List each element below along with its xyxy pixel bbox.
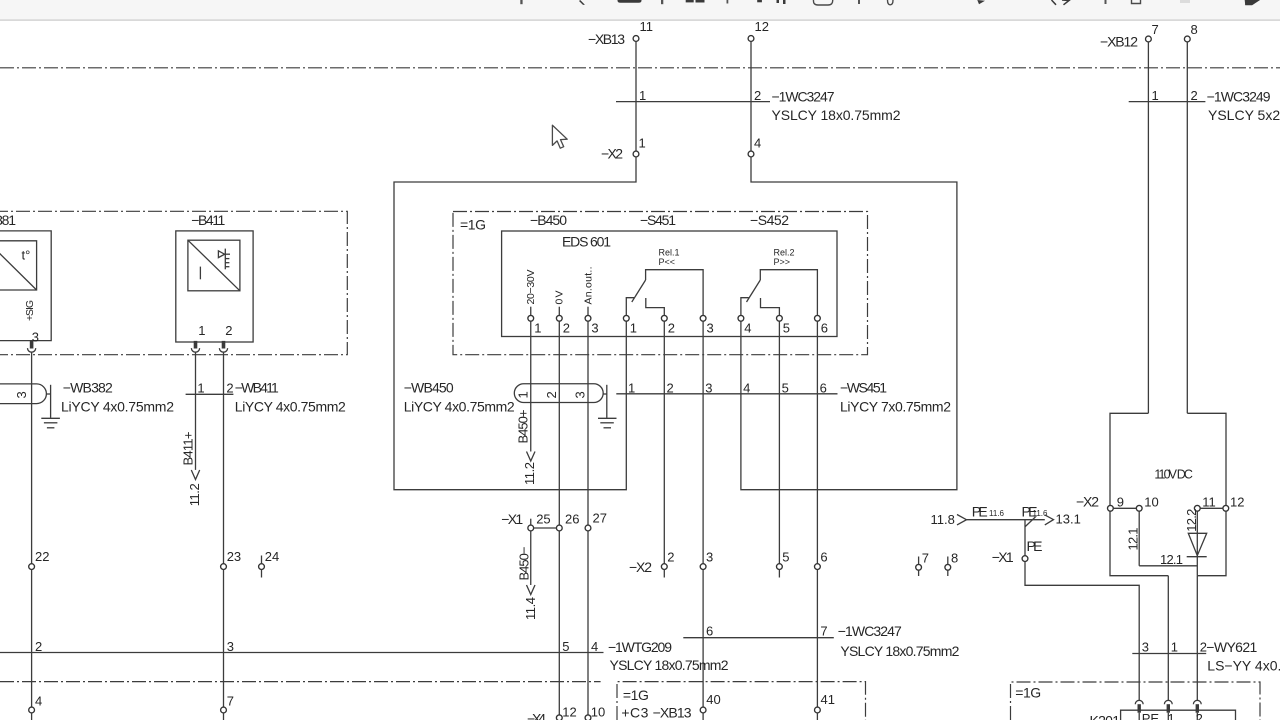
svg-text:2: 2: [35, 639, 42, 654]
contact S451 pin 1 seat: [626, 298, 634, 316]
svg-text:9: 9: [1117, 494, 1124, 509]
cable -1WC3249 crossing: [1129, 101, 1206, 103]
pin S452:5: [777, 315, 783, 321]
wire diode to K201:2: [1196, 576, 1198, 701]
svg-text:2: 2: [754, 88, 761, 103]
contact S452 pin 5 seat: [761, 298, 780, 315]
wire box to K201:1: [1167, 576, 1169, 701]
ground symbol WB382: [41, 417, 60, 419]
supply box: [1110, 413, 1168, 575]
pin S451:2: [661, 315, 667, 321]
wire XB12:7 down to 110V box: [1147, 42, 1149, 413]
pin B450:3: [585, 315, 591, 321]
svg-text:3: 3: [573, 391, 588, 398]
EDS 601 box: [502, 231, 837, 337]
I symbol: [199, 267, 201, 280]
svg-text:−XB13: −XB13: [588, 31, 625, 47]
svg-text:12.1: 12.1: [1126, 528, 1141, 551]
wire X1:27 down to X4:10: [587, 531, 589, 715]
svg-text:3: 3: [707, 321, 714, 336]
sensor B381 body: [0, 231, 51, 341]
terminal X2:3: [700, 564, 706, 570]
shield tick and ground WB450: [606, 385, 608, 418]
wire S452 pin5 down to X2:5: [778, 321, 780, 563]
svg-text:0V: 0V: [554, 291, 566, 305]
terminal X2:7 (spare): [916, 564, 922, 570]
svg-text:LS−YY 4x0.75mm2: LS−YY 4x0.75mm2: [1207, 658, 1280, 674]
shielded cable WB382 stadium: [0, 384, 46, 404]
terminal X2:11: [1194, 505, 1200, 511]
terminal X2:23: [221, 564, 227, 570]
svg-text:1: 1: [1152, 88, 1159, 103]
svg-text:−1WC3247: −1WC3247: [772, 88, 835, 104]
svg-text:YSLCY 18x0.75mm2: YSLCY 18x0.75mm2: [772, 107, 901, 123]
svg-text:LiYCY 4x0.75mm2: LiYCY 4x0.75mm2: [404, 398, 515, 414]
main horizontal dash-dot line: [0, 67, 1280, 69]
svg-text:1: 1: [516, 391, 531, 398]
svg-text:26: 26: [565, 512, 579, 527]
svg-text:1: 1: [1168, 711, 1175, 720]
svg-text:1: 1: [628, 380, 635, 395]
svg-text:2: 2: [667, 550, 674, 565]
svg-text:P<<: P<<: [659, 257, 676, 267]
cable -1WC3247 bottom crossing: [683, 637, 834, 639]
interruption arrow B411+: [191, 470, 199, 480]
svg-text:−K201: −K201: [1082, 713, 1120, 720]
svg-text:2: 2: [668, 321, 675, 336]
svg-text:−WB382: −WB382: [63, 380, 113, 396]
terminal X2:1: [633, 151, 639, 157]
terminal XB13:41: [815, 707, 821, 713]
cable -WY621 crossing: [1132, 653, 1206, 655]
lead B450 pin2: [558, 307, 560, 316]
pin S452:4: [738, 315, 744, 321]
contact S451 pin 2 seat: [646, 298, 665, 315]
wire X2:10 down (12.1): [1138, 511, 1140, 566]
svg-text:12: 12: [755, 19, 769, 34]
svg-text:−1WC3249: −1WC3249: [1207, 88, 1271, 104]
wire X1:26 down to X4:12: [558, 531, 560, 715]
svg-text:1: 1: [198, 323, 205, 338]
terminal X2:10: [1136, 505, 1142, 511]
branch arrow to 13.1: [1025, 517, 1036, 527]
svg-text:−X1: −X1: [992, 549, 1014, 565]
svg-text:3: 3: [227, 639, 234, 654]
svg-text:−X2: −X2: [1076, 494, 1099, 510]
pin B450:1: [528, 315, 534, 321]
svg-text:6: 6: [821, 321, 828, 336]
svg-text:+SIG: +SIG: [24, 300, 36, 321]
K201 pin PE: [1135, 700, 1143, 704]
svg-text:5: 5: [562, 639, 569, 654]
svg-text:5: 5: [782, 380, 789, 395]
svg-text:−WB411: −WB411: [235, 380, 279, 396]
sensor B381 inner square: [0, 241, 37, 290]
terminal X2:12: [1223, 505, 1229, 511]
terminal :7: [221, 707, 227, 713]
mouse cursor: [552, 125, 567, 148]
relay K201 box: [1121, 710, 1236, 720]
svg-text:1: 1: [639, 88, 646, 103]
svg-text:10: 10: [1144, 494, 1158, 509]
svg-text:3: 3: [706, 550, 713, 565]
svg-text:110V DC: 110V DC: [1154, 468, 1193, 482]
svg-text:−1WC3247: −1WC3247: [838, 623, 902, 639]
svg-text:B411+: B411+: [181, 432, 196, 466]
svg-text:−X2: −X2: [601, 146, 623, 162]
wire XB12:8 down to 110V box: [1186, 42, 1188, 413]
diode V1 triangle: [1188, 533, 1206, 555]
svg-text:P>>: P>>: [774, 257, 791, 267]
contact S452 top rail to pin 6: [760, 270, 817, 316]
svg-text:+C3: +C3: [621, 705, 648, 720]
K201 pin 2: [1193, 700, 1201, 704]
svg-text:LiYCY 7x0.75mm2: LiYCY 7x0.75mm2: [840, 398, 951, 414]
wire EDS pin2 down to X1:26: [558, 321, 560, 525]
svg-text:−1WTG209: −1WTG209: [608, 639, 672, 655]
svg-text:−X2: −X2: [629, 559, 652, 575]
contact S451 top rail to pin 3: [646, 270, 704, 316]
svg-text:=1G: =1G: [623, 687, 649, 703]
svg-text:23: 23: [227, 549, 241, 564]
wire B381:3 down: [31, 352, 33, 564]
contact S451 blade: [632, 280, 646, 302]
svg-text:11.4: 11.4: [523, 597, 538, 620]
svg-text:EDS 601: EDS 601: [562, 234, 611, 250]
svg-text:3: 3: [14, 391, 29, 398]
PE wire down through X1:PE: [1025, 520, 1139, 701]
terminal X2:22: [29, 564, 35, 570]
svg-text:11.6: 11.6: [989, 509, 1005, 518]
svg-text:−B411: −B411: [191, 212, 225, 228]
svg-text:1: 1: [639, 136, 646, 151]
svg-text:7: 7: [227, 694, 234, 709]
svg-text:7: 7: [1152, 22, 1159, 37]
pin S452:6: [815, 315, 821, 321]
svg-text:7: 7: [820, 624, 827, 639]
pin B450:2: [556, 315, 562, 321]
svg-text:7: 7: [922, 551, 929, 566]
svg-text:12: 12: [562, 704, 576, 719]
link X2:11-12: [1200, 507, 1223, 509]
terminal X2:9: [1108, 505, 1114, 511]
svg-text:t°: t°: [22, 248, 31, 263]
terminal :4: [29, 707, 35, 713]
sensor B381 diagonal: [0, 241, 37, 290]
svg-text:1: 1: [1171, 640, 1178, 655]
svg-text:LiYCY 4x0.75mm2: LiYCY 4x0.75mm2: [235, 398, 346, 414]
svg-text:11.2: 11.2: [187, 483, 202, 506]
svg-text:24: 24: [265, 549, 279, 564]
svg-text:12: 12: [1230, 494, 1244, 509]
svg-text:3: 3: [591, 321, 598, 336]
svg-text:3: 3: [705, 380, 712, 395]
svg-text:=1G: =1G: [1015, 684, 1041, 700]
terminal X1:PE: [1022, 556, 1028, 562]
svg-text:1: 1: [630, 321, 637, 336]
contact S452 pin 4 seat: [741, 298, 749, 316]
terminal XB13:12: [748, 36, 754, 42]
svg-text:22: 22: [35, 549, 49, 564]
svg-text:=1G: =1G: [460, 217, 486, 233]
svg-text:Rel.1: Rel.1: [659, 248, 680, 258]
svg-text:8: 8: [1191, 22, 1198, 37]
source arrow PE from 11.8: [957, 515, 967, 525]
output symbol (triangle+ticks): [218, 251, 224, 258]
transducer B411 body: [176, 231, 253, 342]
wire X1:25 down to arrow: [530, 531, 532, 585]
transducer B411 diagonal: [188, 240, 240, 291]
svg-text:6: 6: [706, 624, 713, 639]
left boundary line: [0, 681, 601, 683]
svg-text:13.1: 13.1: [1056, 512, 1081, 527]
svg-text:2: 2: [667, 380, 674, 395]
svg-text:2: 2: [226, 380, 233, 395]
svg-text:Rel.2: Rel.2: [774, 248, 795, 258]
svg-text:−XB13: −XB13: [653, 705, 692, 720]
pin S451:1: [623, 315, 629, 321]
interruption arrow B450+: [527, 452, 536, 462]
lead B450 pin3: [587, 307, 589, 316]
svg-text:4: 4: [744, 321, 751, 336]
svg-text:25: 25: [536, 512, 550, 527]
=1G +C3 enclosure: [617, 682, 866, 720]
svg-text:−S452: −S452: [750, 212, 789, 228]
wire XB13:11 to X2:1: [635, 41, 637, 151]
diode V1 cathode bar: [1187, 556, 1207, 558]
svg-text:4: 4: [743, 380, 750, 395]
TOOLBAR: [0, 0, 1280, 21]
svg-text:4: 4: [591, 639, 598, 654]
lead B450 pin1: [530, 307, 532, 316]
terminal X2:8 (spare): [945, 564, 951, 570]
K201 pin 1: [1164, 700, 1172, 704]
svg-text:4: 4: [754, 136, 761, 151]
svg-text:YSLCY 18x0.75mm2: YSLCY 18x0.75mm2: [840, 643, 959, 659]
wire B411:1 down to arrow: [195, 352, 197, 470]
terminal X1:26: [556, 525, 562, 531]
terminal X2:6: [815, 564, 821, 570]
svg-text:3: 3: [1142, 640, 1149, 655]
wire routing right (X2:4 around to S452 pin4): [741, 157, 957, 490]
link X2:9-10: [1113, 507, 1136, 509]
wire EDS pin1 down to arrow: [530, 321, 532, 451]
terminal XB13:40: [700, 707, 706, 713]
transducer B411 inner square: [188, 240, 240, 291]
svg-text:−X4: −X4: [527, 711, 546, 720]
wire S451 pin2 down to X2:2: [663, 321, 665, 563]
svg-text:B450−: B450−: [517, 547, 532, 581]
svg-text:2: 2: [563, 321, 570, 336]
terminal X1:25: [528, 525, 534, 531]
terminal XB13:11: [633, 36, 639, 42]
terminal X1:27: [585, 525, 591, 531]
svg-text:−WY621: −WY621: [1206, 639, 1257, 655]
svg-text:−B381: −B381: [0, 212, 16, 228]
cable -1WC3247 top crossing: [616, 101, 770, 103]
wire 12.1 horizontal: [1139, 565, 1197, 567]
svg-text:6: 6: [820, 380, 827, 395]
terminal XB12:8: [1184, 36, 1190, 42]
wire S451 pin3 down to XB13:40: [702, 321, 704, 707]
svg-text:41: 41: [821, 692, 835, 707]
svg-text:2: 2: [225, 323, 232, 338]
svg-text:−XB12: −XB12: [1100, 34, 1138, 50]
svg-text:11.2: 11.2: [522, 462, 537, 485]
svg-text:B450+: B450+: [516, 410, 531, 444]
svg-text:6: 6: [820, 550, 827, 565]
svg-text:−WB450: −WB450: [404, 380, 454, 396]
wire B411:2 down: [223, 352, 225, 564]
svg-text:5: 5: [782, 550, 789, 565]
svg-text:2: 2: [544, 391, 559, 398]
wire X2:11 down to diode: [1196, 511, 1198, 576]
terminal XB12:7: [1146, 36, 1152, 42]
cable -WB411 crossing: [186, 393, 234, 395]
svg-text:1: 1: [534, 321, 541, 336]
wire XB13:12 to X2:4: [750, 41, 752, 151]
terminal X2:2: [661, 564, 667, 570]
pin S451:3: [700, 315, 706, 321]
svg-text:8: 8: [951, 551, 958, 566]
wire routing left (X2:1 around to S451 pin1): [394, 157, 636, 490]
svg-text:−X1: −X1: [501, 511, 523, 527]
svg-text:−S451: −S451: [640, 212, 676, 228]
svg-text:11: 11: [640, 19, 654, 34]
svg-text:PE: PE: [1142, 711, 1160, 720]
svg-text:YSLCY 18x0.75mm2: YSLCY 18x0.75mm2: [610, 657, 729, 673]
wire EDS pin3 down to X1:27: [587, 321, 589, 525]
svg-text:11: 11: [1202, 494, 1216, 509]
svg-text:5: 5: [783, 321, 790, 336]
svg-text:YSLCY 5x2.5mm2: YSLCY 5x2.5mm2: [1208, 107, 1280, 123]
stub above X1:25: [530, 519, 532, 525]
svg-text:10: 10: [591, 704, 605, 719]
svg-text:2: 2: [1191, 88, 1198, 103]
svg-text:12.2: 12.2: [1184, 509, 1199, 532]
svg-text:11.8: 11.8: [931, 512, 955, 527]
svg-text:4: 4: [35, 694, 42, 709]
cable -1WTG209 crossing: [0, 652, 604, 654]
wire S452 pin6 down to XB13:41: [816, 321, 818, 707]
ground symbol WB450: [598, 417, 617, 419]
terminal X2:4: [748, 151, 754, 157]
svg-text:1: 1: [197, 380, 204, 395]
terminal X2:24 (spare): [259, 564, 265, 570]
svg-text:12.1: 12.1: [1160, 552, 1183, 567]
svg-text:−WS451: −WS451: [840, 380, 887, 396]
shielded cable WB450 stadium: [514, 384, 603, 403]
svg-text:20−30V: 20−30V: [525, 270, 537, 305]
contact S452 blade: [747, 280, 761, 302]
svg-text:LiYCY 4x0.75mm2: LiYCY 4x0.75mm2: [61, 398, 174, 414]
shield tick and ground: [50, 385, 52, 418]
interruption arrow B450-: [527, 585, 536, 595]
svg-text:PE: PE: [1027, 538, 1043, 554]
link X1:25-26: [534, 527, 557, 529]
svg-text:2: 2: [1196, 711, 1203, 720]
svg-text:40: 40: [706, 692, 720, 707]
svg-text:−B450: −B450: [530, 212, 567, 228]
terminal X2:5: [777, 564, 783, 570]
svg-text:An.out..: An.out..: [582, 267, 594, 305]
svg-text:PE: PE: [972, 503, 988, 519]
svg-text:27: 27: [593, 511, 607, 526]
